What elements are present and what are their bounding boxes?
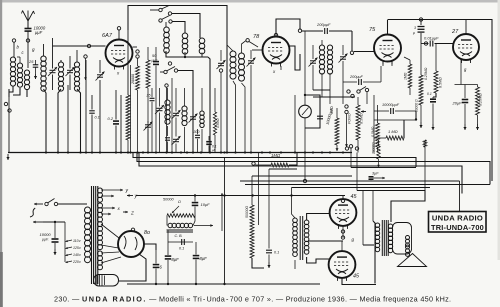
label g1 [32, 47, 35, 52]
wire coil bus2 [166, 51, 210, 153]
wire y97 switch [313, 87, 369, 98]
ground 20uF [463, 124, 466, 130]
svg-text:20μF: 20μF [452, 101, 463, 106]
coil L7 [164, 22, 170, 53]
wire drop x130 [130, 65, 132, 153]
wire 78 loop [281, 46, 300, 70]
wire top right bus [388, 18, 493, 181]
label x 78 [272, 69, 276, 74]
label 10000 uuF [34, 26, 46, 35]
coil L13 [327, 45, 332, 104]
wire to 75 [350, 31, 353, 55]
wire T3 left [373, 191, 375, 284]
svg-text:0.1: 0.1 [427, 92, 432, 96]
label Z left [123, 211, 134, 216]
wire 78 grid top [274, 19, 301, 37]
svg-text:10000μμF: 10000μμF [382, 103, 400, 107]
label 45 upper [351, 194, 358, 200]
svg-text:110 v: 110 v [73, 239, 81, 243]
svg-text:0.01μμF: 0.01μμF [424, 36, 439, 41]
svg-text:3: 3 [414, 26, 416, 30]
transformer T1 secondary [98, 188, 103, 270]
svg-text:25: 25 [28, 59, 34, 64]
svg-text:45: 45 [351, 194, 358, 200]
switch mains [34, 199, 87, 206]
ground R6 [419, 122, 422, 128]
svg-text:200μμF: 200μμF [316, 22, 331, 27]
label 78 [253, 34, 260, 40]
fuse [30, 208, 35, 217]
label 6A7 [102, 33, 113, 39]
label 27 [451, 29, 459, 35]
ground 01out [267, 262, 270, 268]
capacitor 8uF a [165, 230, 179, 285]
svg-text:0.5MΩ: 0.5MΩ [360, 113, 364, 124]
variable capacitor CV5 [247, 50, 256, 153]
capacitor 3uF [369, 172, 386, 182]
svg-text:10000: 10000 [40, 232, 52, 237]
wire 75 left [354, 51, 374, 53]
wire drop x100 [99, 80, 101, 153]
wire terminal b [13, 42, 15, 57]
resistor R4 025 [476, 85, 483, 125]
tube 45 upper [330, 199, 357, 229]
wire x357 [356, 153, 358, 191]
label g 27 [464, 67, 467, 72]
svg-text:140 v: 140 v [73, 253, 81, 257]
svg-text:μμF: μμF [34, 30, 43, 35]
capacitor 6 [153, 250, 163, 285]
tube 75 [374, 35, 401, 65]
wire x222 arrow [221, 193, 224, 231]
tube 27 [453, 34, 479, 63]
switch S2 [159, 16, 185, 34]
terminals FONO [345, 90, 354, 124]
wire mains low [33, 221, 65, 262]
tuning lamp [299, 94, 320, 181]
svg-text:20000: 20000 [131, 74, 135, 85]
wire bundle B [137, 153, 490, 185]
label 10000uuF vert [326, 107, 334, 125]
resistor R10 1M [374, 120, 404, 140]
svg-text:230. — UNDA RADIO. — Modelli «: 230. — UNDA RADIO. — Modelli « Tri - Und… [54, 295, 451, 304]
terminals fono2 [345, 147, 358, 150]
arrows secondary y [101, 188, 129, 197]
ground chassis [6, 154, 9, 160]
coil L10b [239, 39, 250, 153]
wire x128 down [127, 6, 129, 96]
wire field out [194, 224, 213, 227]
wire x224 [223, 158, 225, 286]
arrows secondary x [101, 206, 121, 215]
capacitor 200uuF b [343, 66, 381, 85]
transformer T3 [375, 220, 392, 256]
label g 45 [352, 237, 355, 242]
svg-text:1MΩ: 1MΩ [330, 106, 334, 114]
junction dots bus [45, 151, 344, 153]
wire antenna down [27, 31, 29, 68]
svg-text:1 MΩ: 1 MΩ [388, 129, 398, 134]
capacitor 0.01uuF [421, 36, 454, 47]
wire x295 [294, 95, 296, 153]
scan top edge [0, 0, 500, 3]
ground mains cap [53, 249, 56, 255]
scan left edge [0, 0, 3, 307]
node antenna [26, 39, 29, 42]
coil L14 [165, 88, 170, 153]
resistor R3 [126, 95, 130, 153]
wire drops left [9, 60, 86, 153]
resistor R6 025b [415, 44, 429, 123]
capacitor 300 [194, 129, 201, 153]
svg-text:45: 45 [353, 274, 360, 280]
coil L12 [319, 40, 324, 90]
svg-text:0.2: 0.2 [108, 116, 114, 121]
variable capacitor CV2 [66, 56, 75, 90]
coil L3 [24, 70, 29, 90]
label c [22, 50, 25, 55]
svg-text:8μF: 8μF [200, 256, 208, 261]
resistor R13 20000 [349, 140, 416, 168]
wire sw left [150, 9, 159, 11]
wire speaker [363, 191, 391, 246]
label box text2 [431, 223, 484, 232]
resistor R12 [245, 205, 264, 268]
variable capacitor CV11 [189, 88, 198, 153]
wire 45 grids [307, 214, 343, 264]
node mid [168, 62, 171, 65]
variable capacitor CV3 [96, 72, 105, 81]
capacitor 0.1 ps [168, 239, 193, 251]
capacitor 8uF b [193, 242, 207, 285]
coil L5 [58, 60, 63, 91]
svg-text:1MΩ: 1MΩ [404, 72, 408, 80]
wire x374 [373, 95, 375, 153]
svg-text:75: 75 [369, 27, 376, 33]
svg-text:μμF.: μμF. [41, 238, 49, 242]
capacitor 0.1uF m [206, 136, 216, 153]
capacitor 25b [146, 88, 155, 153]
svg-text:8o: 8o [144, 230, 150, 236]
resistor R14 [213, 88, 220, 153]
speaker housing [393, 223, 412, 257]
coil L4 [41, 44, 46, 91]
wire 45 plate up [341, 196, 344, 203]
svg-text:Ω: Ω [178, 200, 181, 204]
capacitor 0.1 out [266, 176, 279, 262]
wire 78 grid in [249, 42, 258, 48]
label 80 [131, 228, 150, 236]
capacitor 10000uuF r [374, 103, 416, 120]
coil L10 [227, 45, 236, 153]
resistor R8 05M [356, 97, 366, 153]
transformer T1 primary [85, 204, 91, 263]
field coil CB [167, 216, 196, 239]
svg-text:50000 Ω: 50000 Ω [415, 99, 419, 112]
transformer T2 [292, 188, 309, 270]
resistor R15 1M [404, 57, 412, 95]
svg-text:220 v: 220 v [72, 260, 81, 264]
resistor R9 05 [371, 105, 380, 153]
wire bundle C [139, 153, 462, 194]
ground 01d [431, 124, 434, 130]
variable capacitor CV6 [309, 45, 318, 90]
scan right edge [498, 0, 500, 260]
wire 80 heater [101, 252, 121, 263]
resistor R16 50000 [423, 140, 426, 191]
label x 6A7 [116, 71, 120, 76]
svg-text:50000Ω: 50000Ω [245, 206, 249, 218]
variable capacitor CV1 [48, 38, 57, 90]
wire 45 mid [341, 226, 344, 251]
capacitor 10uF [192, 194, 210, 215]
svg-text:10μF: 10μF [201, 202, 211, 207]
wire x252 [251, 176, 292, 205]
wire bundle D [252, 175, 352, 177]
switch S3 [160, 67, 193, 153]
capacitor 200uuF [302, 22, 353, 34]
label 75 [369, 27, 376, 33]
capacitor 0.2 [108, 90, 120, 153]
terminal a [4, 102, 11, 112]
wire 45 lower plate [342, 278, 376, 285]
coil L9 [199, 38, 205, 54]
wire 6A7 right [133, 47, 140, 58]
wire x258 [258, 153, 260, 226]
wire y120 [374, 118, 417, 120]
wire bundle E [240, 179, 490, 211]
capacitor lamp [317, 116, 323, 119]
svg-text:78: 78 [253, 34, 260, 40]
svg-text:50: 50 [152, 53, 157, 58]
coil L8 [182, 33, 188, 54]
wire coil bottoms [9, 86, 27, 97]
wire 27 top [465, 20, 467, 35]
svg-text:0.1: 0.1 [95, 116, 100, 120]
variable capacitor CV4 [217, 50, 226, 72]
wire x367 [366, 92, 368, 104]
wire x305 long [304, 31, 306, 95]
antenna [22, 11, 35, 29]
capacitor 50uuF [151, 47, 160, 153]
caption [54, 295, 451, 304]
svg-text:8μF: 8μF [172, 257, 180, 262]
potentiometer 50000 [163, 198, 195, 218]
wire 27 cathode [455, 60, 478, 85]
svg-text:TRI-UNDA-700: TRI-UNDA-700 [431, 223, 484, 232]
svg-text:200μμF: 200μμF [349, 75, 363, 79]
svg-text:300: 300 [194, 130, 200, 134]
switch S1 [159, 6, 200, 39]
tube 80 [118, 231, 144, 257]
wire drop x100b [99, 60, 101, 73]
wire 75 plate top [387, 20, 389, 35]
tube 78 [263, 37, 290, 67]
voltage taps [66, 239, 82, 264]
wire chassis bus [8, 152, 352, 154]
label box [429, 212, 487, 233]
svg-text:50000: 50000 [163, 198, 174, 202]
wire pot left [166, 216, 168, 231]
svg-text:C. B.: C. B. [175, 234, 183, 238]
coil L2 [17, 57, 23, 87]
wire y169 [269, 169, 297, 176]
variable capacitor CV10 [172, 88, 181, 153]
wire y190 [357, 191, 425, 223]
svg-text:125 v: 125 v [73, 246, 81, 250]
svg-text:0.1: 0.1 [274, 251, 279, 255]
terminal sw3 [165, 78, 172, 153]
svg-text:20000Ω: 20000Ω [372, 142, 376, 155]
wire 80 out [144, 244, 156, 250]
svg-text:27: 27 [451, 29, 459, 35]
terminal g osc [84, 55, 87, 80]
variable capacitor CV8 [155, 88, 164, 153]
capacitor 0.1 left [89, 95, 100, 153]
label box text1 [432, 214, 483, 223]
wire bottom bus [127, 283, 320, 285]
resistor R1 20000 [131, 58, 140, 153]
ground cap25 [34, 74, 37, 79]
capacitor 25 [28, 59, 38, 74]
svg-text:g: g [32, 47, 35, 52]
svg-text:0.5MΩ: 0.5MΩ [439, 77, 443, 88]
svg-text:1MΩ: 1MΩ [271, 153, 281, 158]
tube 45 lower [329, 251, 356, 281]
capacitor stack [412, 20, 425, 44]
coil L16 [200, 88, 204, 153]
resistor R5 05 [433, 44, 443, 98]
variable capacitor CV7 [339, 45, 348, 104]
svg-text:FONO: FONO [348, 113, 352, 124]
rounded box heater [94, 275, 119, 287]
ground R4 [476, 124, 479, 130]
wire 6A7 left [53, 44, 106, 47]
svg-text:6A7: 6A7 [102, 33, 113, 39]
capacitor 0.1 d [427, 92, 436, 124]
wire 75 prongs [383, 61, 392, 67]
variable capacitor CV9 [144, 121, 153, 153]
capacitor 20uF [452, 85, 469, 125]
svg-text:0.25MΩ: 0.25MΩ [479, 93, 483, 106]
wire drop x121 [120, 95, 122, 153]
coil L1 [10, 57, 15, 86]
resistor R7 1M [330, 106, 339, 151]
speaker cone [398, 254, 427, 267]
wire y line [127, 194, 345, 200]
capacitor antenna 10000 pF [25, 29, 32, 32]
transformer T1 core [92, 186, 98, 284]
wire 80 plates [101, 224, 119, 248]
label 45 lower [353, 274, 360, 280]
wire y187 [292, 187, 431, 189]
terminal b [12, 39, 19, 50]
wire top bus [128, 6, 227, 153]
resistor R11 1M [252, 153, 297, 168]
svg-text:0.1: 0.1 [179, 247, 184, 251]
wire x221 down [220, 72, 222, 153]
tube 6A7 [106, 40, 133, 70]
wire bundle A [133, 153, 416, 168]
wire 80 bottom [119, 254, 146, 281]
coil L15 [182, 88, 187, 153]
svg-text:UNDA RADIO: UNDA RADIO [432, 214, 483, 223]
coil L6 [74, 50, 79, 91]
svg-text:0.25MΩ: 0.25MΩ [424, 67, 428, 80]
svg-text:3μF: 3μF [372, 172, 379, 176]
wire fono [345, 114, 348, 147]
wire 78 left [252, 49, 263, 51]
wire 6A7 grid cap [117, 27, 120, 40]
capacitor mains [40, 222, 59, 249]
resistor R2 [146, 47, 150, 153]
svg-text:0.5MΩ: 0.5MΩ [216, 118, 220, 128]
